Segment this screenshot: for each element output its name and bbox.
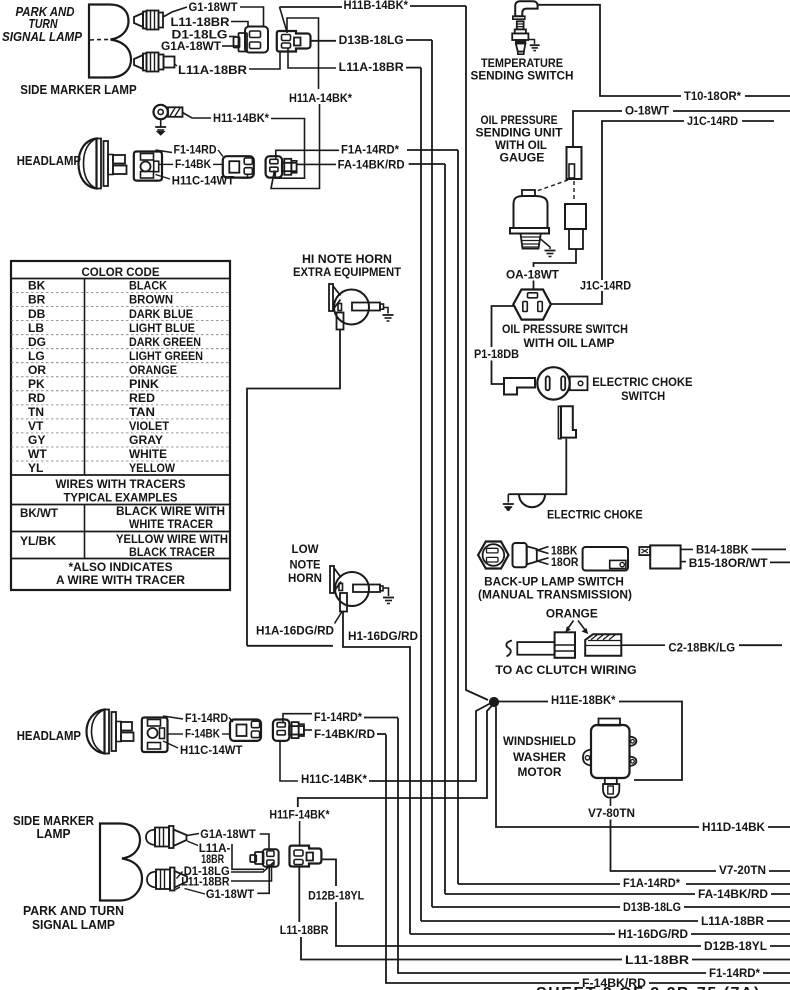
label T10-18OR* — [684, 89, 741, 103]
svg-text:B14-18BK: B14-18BK — [696, 543, 749, 557]
svg-text:WT: WT — [28, 447, 47, 461]
wire O-18WT left — [573, 111, 622, 146]
side marker lamp label — [20, 83, 136, 97]
wire to C2 label — [621, 644, 665, 646]
line below YL/BK row — [11, 558, 230, 560]
label B15-18OR/WT — [689, 556, 769, 570]
label B14-18BK — [696, 543, 749, 557]
wire to H11B label — [280, 6, 343, 8]
wire FA from plug — [297, 163, 337, 165]
wire H11A down to headlamp connector — [271, 104, 320, 189]
svg-text:L11-18BR: L11-18BR — [280, 923, 329, 937]
wire F1A bottom — [458, 883, 620, 885]
trunk wire H11B vertical — [466, 6, 488, 700]
svg-text:WITH OIL LAMP: WITH OIL LAMP — [524, 336, 615, 350]
dashed link to canister — [534, 180, 568, 192]
washer motor outlet — [603, 778, 619, 798]
wire J1C right segment — [602, 121, 684, 280]
line below typical examples — [11, 504, 230, 506]
temperature sending switch body — [512, 21, 528, 54]
label F1A-14RD* (top) — [341, 143, 399, 157]
svg-text:BK: BK — [28, 279, 46, 293]
label V7-20TN — [719, 863, 766, 877]
svg-text:ORANGE: ORANGE — [546, 607, 598, 621]
svg-text:F-14BK: F-14BK — [185, 727, 220, 741]
label F1-14RD* (bottom headlamp) — [314, 710, 362, 724]
headlamp symbol (bottom) — [87, 710, 134, 754]
wire G1A-18WT to plug — [222, 45, 238, 47]
headlamp connector 3 (bottom right) — [273, 720, 304, 741]
svg-text:WHITE TRACER: WHITE TRACER — [129, 517, 213, 531]
wire L11A down to connector (bottom) — [232, 844, 264, 869]
svg-text:D12B-18YL: D12B-18YL — [308, 889, 364, 903]
backup switch hex — [478, 542, 508, 569]
headlamp connector 2 (bottom middle) — [230, 720, 261, 741]
svg-text:V7-20TN: V7-20TN — [719, 863, 766, 877]
svg-text:ELECTRIC CHOKE: ELECTRIC CHOKE — [547, 508, 643, 522]
wire P1 from hex — [492, 306, 515, 347]
orange arrow left — [565, 621, 573, 633]
wire to B14-18BK — [681, 548, 693, 550]
wire O-18WT right — [673, 110, 790, 112]
low horn terminal — [340, 593, 347, 612]
svg-text:DARK GREEN: DARK GREEN — [129, 335, 201, 349]
wire B15 right — [770, 561, 790, 563]
svg-text:C2-18BK/LG: C2-18BK/LG — [668, 641, 735, 655]
bulb 2 (top) — [134, 53, 175, 72]
svg-text:H11B-14BK*: H11B-14BK* — [344, 0, 409, 12]
svg-text:MOTOR: MOTOR — [518, 765, 562, 779]
svg-text:H1-16DG/RD: H1-16DG/RD — [618, 927, 688, 941]
wire OA from connector 2 — [534, 249, 577, 267]
label D1-18LG — [172, 28, 228, 42]
svg-text:TURN: TURN — [29, 17, 59, 31]
label H11E-18BK* — [551, 693, 616, 707]
windshield washer motor label — [503, 734, 576, 779]
svg-text:VIOLET: VIOLET — [129, 419, 170, 433]
wire H11 to headlamp ground node — [271, 119, 305, 179]
svg-text:G1A-18WT: G1A-18WT — [200, 827, 256, 841]
svg-text:PARK AND TURN: PARK AND TURN — [23, 904, 124, 918]
to AC clutch wiring label — [495, 663, 636, 677]
hi horn ground — [383, 308, 394, 322]
label L11-18BR — [171, 15, 230, 29]
gauge connector 2 — [565, 204, 586, 249]
ground below ring terminal — [155, 119, 166, 135]
wire H11D from dot — [496, 707, 699, 827]
park and turn signal lamp housing (bottom B shape) — [100, 824, 142, 901]
svg-text:BLACK: BLACK — [129, 279, 167, 293]
park and turn signal lamp label (bottom) — [23, 904, 124, 932]
svg-text:D13B-18LG: D13B-18LG — [339, 33, 404, 47]
svg-text:D12B-18YL: D12B-18YL — [704, 939, 767, 953]
label FA-14BK/RD (top) — [338, 158, 405, 172]
headlamp connector 1 (top) — [134, 152, 162, 181]
AC clutch wire lead — [517, 642, 554, 655]
label L11-18BR (mid) — [280, 923, 329, 937]
connector (marker small, bottom) — [250, 849, 278, 866]
wire F1A right — [686, 883, 790, 885]
wire bulb1 to G1A — [187, 834, 199, 836]
label H11C-14BK* — [301, 772, 367, 786]
wire L11 down — [301, 937, 622, 960]
wire choke connector down — [508, 439, 566, 495]
wire F right — [649, 982, 790, 984]
svg-text:VT: VT — [28, 419, 44, 433]
header separator — [11, 278, 230, 280]
label 18OR — [551, 555, 579, 569]
wire G1A to connector (bottom) — [260, 834, 269, 849]
label D1-18LG (bottom) — [184, 864, 230, 878]
side marker lamp label (bottom) — [13, 814, 94, 841]
label G1-18WT — [189, 0, 239, 14]
color code row YL — [11, 461, 230, 475]
electric choke label — [547, 508, 643, 522]
svg-text:PK: PK — [28, 377, 45, 391]
svg-text:PINK: PINK — [129, 377, 159, 391]
label L11A- (bottom) — [199, 841, 231, 855]
wire H11B to trunk — [410, 5, 466, 7]
windshield washer motor body — [583, 719, 636, 779]
oil sending unit canister — [510, 190, 549, 249]
wire H1 from terminal down — [343, 612, 410, 935]
choke connector block — [558, 406, 576, 438]
wire L11-18BR to connector — [231, 22, 248, 28]
label 18BK — [551, 544, 578, 558]
color code row BR — [11, 293, 230, 307]
svg-text:H11E-18BK*: H11E-18BK* — [551, 693, 616, 707]
color code row OR — [11, 363, 230, 377]
color code row LB — [11, 321, 230, 335]
svg-text:LIGHT BLUE: LIGHT BLUE — [129, 321, 195, 335]
hi horn terminal — [337, 313, 344, 330]
AC clutch connector block 1 — [555, 632, 575, 658]
svg-text:F1A-14RD*: F1A-14RD* — [623, 876, 680, 890]
label H1-16DG/RD (upper) — [348, 629, 418, 643]
svg-text:BK/WT: BK/WT — [20, 506, 59, 520]
wire J1C to switch — [551, 291, 602, 304]
color code row GY — [11, 433, 230, 447]
oil pressure switch label — [502, 322, 628, 350]
wire L11 to bulb2 — [176, 887, 181, 890]
svg-text:F-14BK: F-14BK — [175, 157, 211, 171]
svg-text:NOTE: NOTE — [290, 558, 321, 572]
backup lamp switch label — [478, 575, 632, 602]
color code header — [82, 265, 160, 279]
wire F-14BK right (bottom) — [222, 733, 230, 735]
backup switch plug — [513, 543, 537, 567]
svg-text:H11-14BK*: H11-14BK* — [213, 111, 269, 125]
svg-text:H11A-14BK*: H11A-14BK* — [289, 91, 352, 105]
AC clutch connector block 2 — [585, 634, 621, 656]
svg-text:RED: RED — [129, 391, 155, 405]
temp switch ground — [528, 40, 539, 51]
label H11C-14WT (bottom) — [180, 743, 243, 757]
svg-text:F1-14RD: F1-14RD — [185, 711, 228, 725]
svg-text:G1-18WT: G1-18WT — [189, 0, 239, 14]
svg-text:YL: YL — [28, 461, 43, 475]
wire F1 bottom — [398, 718, 706, 973]
svg-text:WINDSHIELD: WINDSHIELD — [503, 734, 576, 748]
low note horn — [330, 566, 383, 606]
label G1A-18WT (bottom) — [200, 827, 256, 841]
label FA-14BK/RD (bottom) — [698, 887, 768, 901]
svg-text:H1-16DG/RD: H1-16DG/RD — [348, 629, 418, 643]
svg-text:YELLOW WIRE WITH: YELLOW WIRE WITH — [116, 532, 228, 546]
label G1A-18WT — [161, 39, 222, 53]
wire hatch strap to H11 label — [183, 113, 212, 119]
trunk wire F1A vertical — [457, 150, 459, 884]
wire C2 right — [739, 644, 782, 646]
svg-text:SIDE MARKER LAMP: SIDE MARKER LAMP — [20, 83, 136, 97]
low horn ground — [383, 588, 394, 604]
bulb 1 (top) — [134, 11, 163, 30]
park and turn signal lamp label — [2, 5, 83, 44]
wire L11 right — [692, 959, 790, 961]
label D12B-18YL (bottom) — [704, 939, 767, 953]
label H11A-14BK* — [289, 91, 352, 105]
label H11D-14BK — [702, 820, 765, 834]
label L11A-18BR (bottom) — [701, 914, 764, 928]
svg-text:WASHER: WASHER — [513, 750, 566, 764]
svg-text:ELECTRIC CHOKE: ELECTRIC CHOKE — [592, 375, 692, 389]
wire D12B right — [770, 945, 790, 947]
svg-text:P1-18DB: P1-18DB — [474, 347, 519, 361]
svg-text:OR: OR — [28, 363, 46, 377]
color code row WT — [11, 447, 230, 461]
label F1A-14RD* (bottom) — [623, 876, 680, 890]
wire L11 to connector underside — [231, 868, 272, 882]
svg-text:HEADLAMP: HEADLAMP — [17, 154, 81, 168]
bulb 1 (bottom) — [146, 826, 187, 848]
label F-14BK (bottom) — [185, 727, 220, 741]
park and turn signal lamp housing (B shape) — [89, 5, 131, 78]
svg-text:YL/BK: YL/BK — [20, 534, 56, 548]
svg-text:J1C-14RD: J1C-14RD — [580, 279, 631, 293]
wire H1 right — [691, 933, 790, 935]
svg-text:H11C-14WT: H11C-14WT — [180, 743, 243, 757]
low note horn label — [288, 542, 322, 585]
label F-14BK/RD (bottom headlamp) — [314, 727, 375, 741]
electric choke element dome — [519, 494, 545, 507]
svg-text:F-14BK/RD: F-14BK/RD — [314, 727, 375, 741]
svg-text:COLOR CODE: COLOR CODE — [82, 265, 160, 279]
wire H11E from dot — [499, 701, 549, 703]
gauge connector 1 — [567, 147, 582, 179]
wire D1 to connector (bottom) — [231, 862, 274, 872]
svg-text:YELLOW: YELLOW — [129, 461, 176, 475]
wire P1 to choke switch — [492, 361, 505, 385]
wire B14 right — [752, 548, 787, 550]
wire H11D right — [768, 826, 790, 828]
svg-text:F1-14RD*: F1-14RD* — [709, 966, 760, 980]
svg-text:TO AC CLUTCH WIRING: TO AC CLUTCH WIRING — [495, 663, 636, 677]
wire J1C right — [742, 120, 774, 122]
sheet note fragment — [536, 985, 761, 990]
wire to F1-14RD — [156, 150, 173, 153]
label D12B-18YL (upper) — [308, 889, 364, 903]
wire H11B diagonal from connector pin — [280, 7, 288, 32]
svg-text:OIL PRESSURE SWITCH: OIL PRESSURE SWITCH — [502, 322, 628, 336]
label O-18WT — [625, 104, 670, 118]
trunk wire D13B vertical — [431, 40, 433, 907]
color code row TN — [11, 405, 230, 419]
svg-text:H11F-14BK*: H11F-14BK* — [269, 808, 330, 822]
color code row DB — [11, 307, 230, 321]
color code row VT — [11, 419, 230, 433]
label H11B-14BK* — [344, 0, 409, 12]
svg-text:BLACK WIRE WITH: BLACK WIRE WITH — [116, 504, 225, 518]
svg-text:LOW: LOW — [292, 542, 320, 556]
dashed link to connector 2 — [573, 181, 575, 202]
junction dot — [489, 697, 498, 706]
wire H11E around motor — [619, 702, 682, 781]
label J1C-14RD (at switch) — [580, 279, 631, 293]
svg-text:EXTRA EQUIPMENT: EXTRA EQUIPMENT — [293, 265, 402, 279]
wire FA bottom — [445, 893, 695, 895]
svg-text:WHITE: WHITE — [129, 447, 167, 461]
svg-text:F1-14RD: F1-14RD — [174, 143, 217, 157]
svg-text:SHEET 2 OF 2 2B-75 (7A): SHEET 2 OF 2 2B-75 (7A) — [536, 985, 761, 990]
wire F1A from connector pin — [276, 150, 339, 159]
electric choke ground — [503, 494, 514, 510]
svg-text:H11C-14BK*: H11C-14BK* — [301, 772, 367, 786]
wire OA to switch — [533, 281, 535, 290]
svg-text:SWITCH: SWITCH — [621, 389, 665, 403]
headlamp label (bottom) — [17, 729, 81, 743]
wire H11C from connector down — [280, 741, 298, 781]
svg-text:GAUGE: GAUGE — [500, 151, 545, 165]
svg-text:GRAY: GRAY — [129, 433, 163, 447]
svg-text:18OR: 18OR — [551, 555, 579, 569]
row BK/WT — [20, 504, 225, 531]
wire F from plug (bottom) — [304, 729, 312, 731]
svg-text:D13B-18LG: D13B-18LG — [623, 900, 681, 914]
label 18BR (bottom) — [201, 852, 224, 866]
svg-text:LIGHT GREEN: LIGHT GREEN — [129, 349, 203, 363]
headlamp connector 1 (bottom) — [142, 718, 168, 753]
wire H11C to junction — [369, 704, 490, 782]
bulb 2 (bottom) — [147, 868, 187, 891]
headlamp connector 3 (top right) — [266, 156, 297, 177]
label F1-14RD — [174, 143, 217, 157]
ring terminal with hatched strap — [154, 105, 183, 119]
headlamp connector 2 (top middle) — [223, 156, 254, 178]
wire F1A to trunk — [407, 149, 458, 151]
svg-text:L11A-18BR: L11A-18BR — [178, 63, 247, 77]
label F1-14RD (bottom) — [185, 711, 228, 725]
backup switch prongs — [538, 547, 549, 565]
label F1-14RD* (bottom) — [709, 966, 760, 980]
wire D13B right — [684, 906, 790, 908]
wire T10 right — [745, 95, 790, 97]
wire H1 bottom — [410, 933, 615, 935]
label H11C-14WT — [172, 174, 235, 188]
svg-text:WIRES WITH TRACERS: WIRES WITH TRACERS — [56, 477, 186, 491]
wire bulb1 to L11A label — [187, 841, 198, 846]
svg-text:V7-80TN: V7-80TN — [588, 806, 635, 820]
electric choke switch — [537, 367, 587, 399]
choke switch spade terminal — [504, 378, 535, 395]
color code row RD — [11, 391, 230, 405]
svg-text:J1C-14RD: J1C-14RD — [687, 114, 738, 128]
label C2-18BK/LG — [668, 641, 735, 655]
wire F bottom — [386, 735, 579, 984]
label D13B-18LG (top) — [339, 33, 404, 47]
hi note horn label — [293, 252, 402, 279]
wire to B15 — [681, 561, 686, 563]
wire D1-18LG to plug — [229, 36, 236, 38]
wire to H11C-14WT (bottom) — [163, 741, 178, 748]
svg-text:F1A-14RD*: F1A-14RD* — [341, 143, 399, 157]
label ORANGE — [546, 607, 598, 621]
wire bulb1 to G1-18WT — [163, 7, 187, 17]
label H11-14BK* — [213, 111, 269, 125]
headlamp symbol (top) — [79, 139, 127, 189]
temperature sending switch label — [471, 56, 574, 83]
svg-text:HORN: HORN — [288, 571, 322, 585]
svg-text:HI NOTE HORN: HI NOTE HORN — [302, 252, 392, 266]
svg-text:G1-18WT: G1-18WT — [206, 887, 255, 901]
wire D1 to bulb2 — [177, 872, 183, 879]
svg-text:F1-14RD*: F1-14RD* — [314, 710, 362, 724]
oil pressure sending unit label — [476, 113, 564, 165]
wire G1-18WT to connector — [240, 7, 264, 27]
svg-text:FA-14BK/RD: FA-14BK/RD — [698, 887, 768, 901]
wire FA to trunk — [409, 163, 445, 165]
label P1-18DB — [474, 347, 519, 361]
wire H11A top loop — [287, 18, 319, 89]
electric choke switch label — [592, 375, 692, 403]
wire F to down wire — [377, 733, 386, 735]
color code row BK — [28, 279, 167, 293]
wire T10 from boot — [538, 5, 681, 96]
wire L11 from connector down — [298, 867, 300, 923]
svg-text:BLACK TRACER: BLACK TRACER — [129, 545, 215, 559]
label F-14BK/RD (bottom) — [582, 976, 646, 990]
svg-text:BROWN: BROWN — [129, 293, 173, 307]
svg-text:LAMP: LAMP — [37, 827, 71, 841]
svg-text:SIDE MARKER: SIDE MARKER — [13, 814, 94, 828]
color code row LG — [11, 349, 230, 363]
line below color rows — [11, 474, 230, 476]
label H1-16DG/RD (bottom) — [618, 927, 688, 941]
label J1C-14RD (top) — [687, 114, 738, 128]
svg-text:(MANUAL TRANSMISSION): (MANUAL TRANSMISSION) — [478, 588, 632, 602]
label V7-80TN — [588, 806, 635, 820]
label L11A-18BR (top right) — [339, 60, 404, 74]
wire F-14BK left (bottom) — [168, 733, 184, 735]
wires with tracers heading — [56, 477, 186, 505]
svg-text:LB: LB — [28, 321, 44, 335]
wire F1 right — [763, 972, 790, 974]
wire V7 from motor — [610, 798, 612, 807]
svg-text:BACK-UP LAMP SWITCH: BACK-UP LAMP SWITCH — [484, 575, 624, 589]
wire L11A to trunk — [406, 67, 421, 69]
svg-text:SIGNAL LAMP: SIGNAL LAMP — [32, 918, 115, 932]
line below BK/WT row — [11, 531, 230, 533]
color code row DG — [11, 335, 230, 349]
svg-text:H11D-14BK: H11D-14BK — [702, 820, 765, 834]
wire F1-14RD to mid connector (bottom) — [229, 718, 233, 723]
label L11A-18BR — [178, 63, 247, 77]
svg-text:O-18WT: O-18WT — [625, 104, 670, 118]
trunk wire L11A vertical — [420, 68, 422, 921]
wire F1 from connector (bottom) — [283, 714, 312, 723]
wire connector pin to H11A node — [271, 171, 275, 189]
table divider vertical lower — [84, 505, 86, 559]
wire H11F down to connector — [299, 821, 301, 846]
